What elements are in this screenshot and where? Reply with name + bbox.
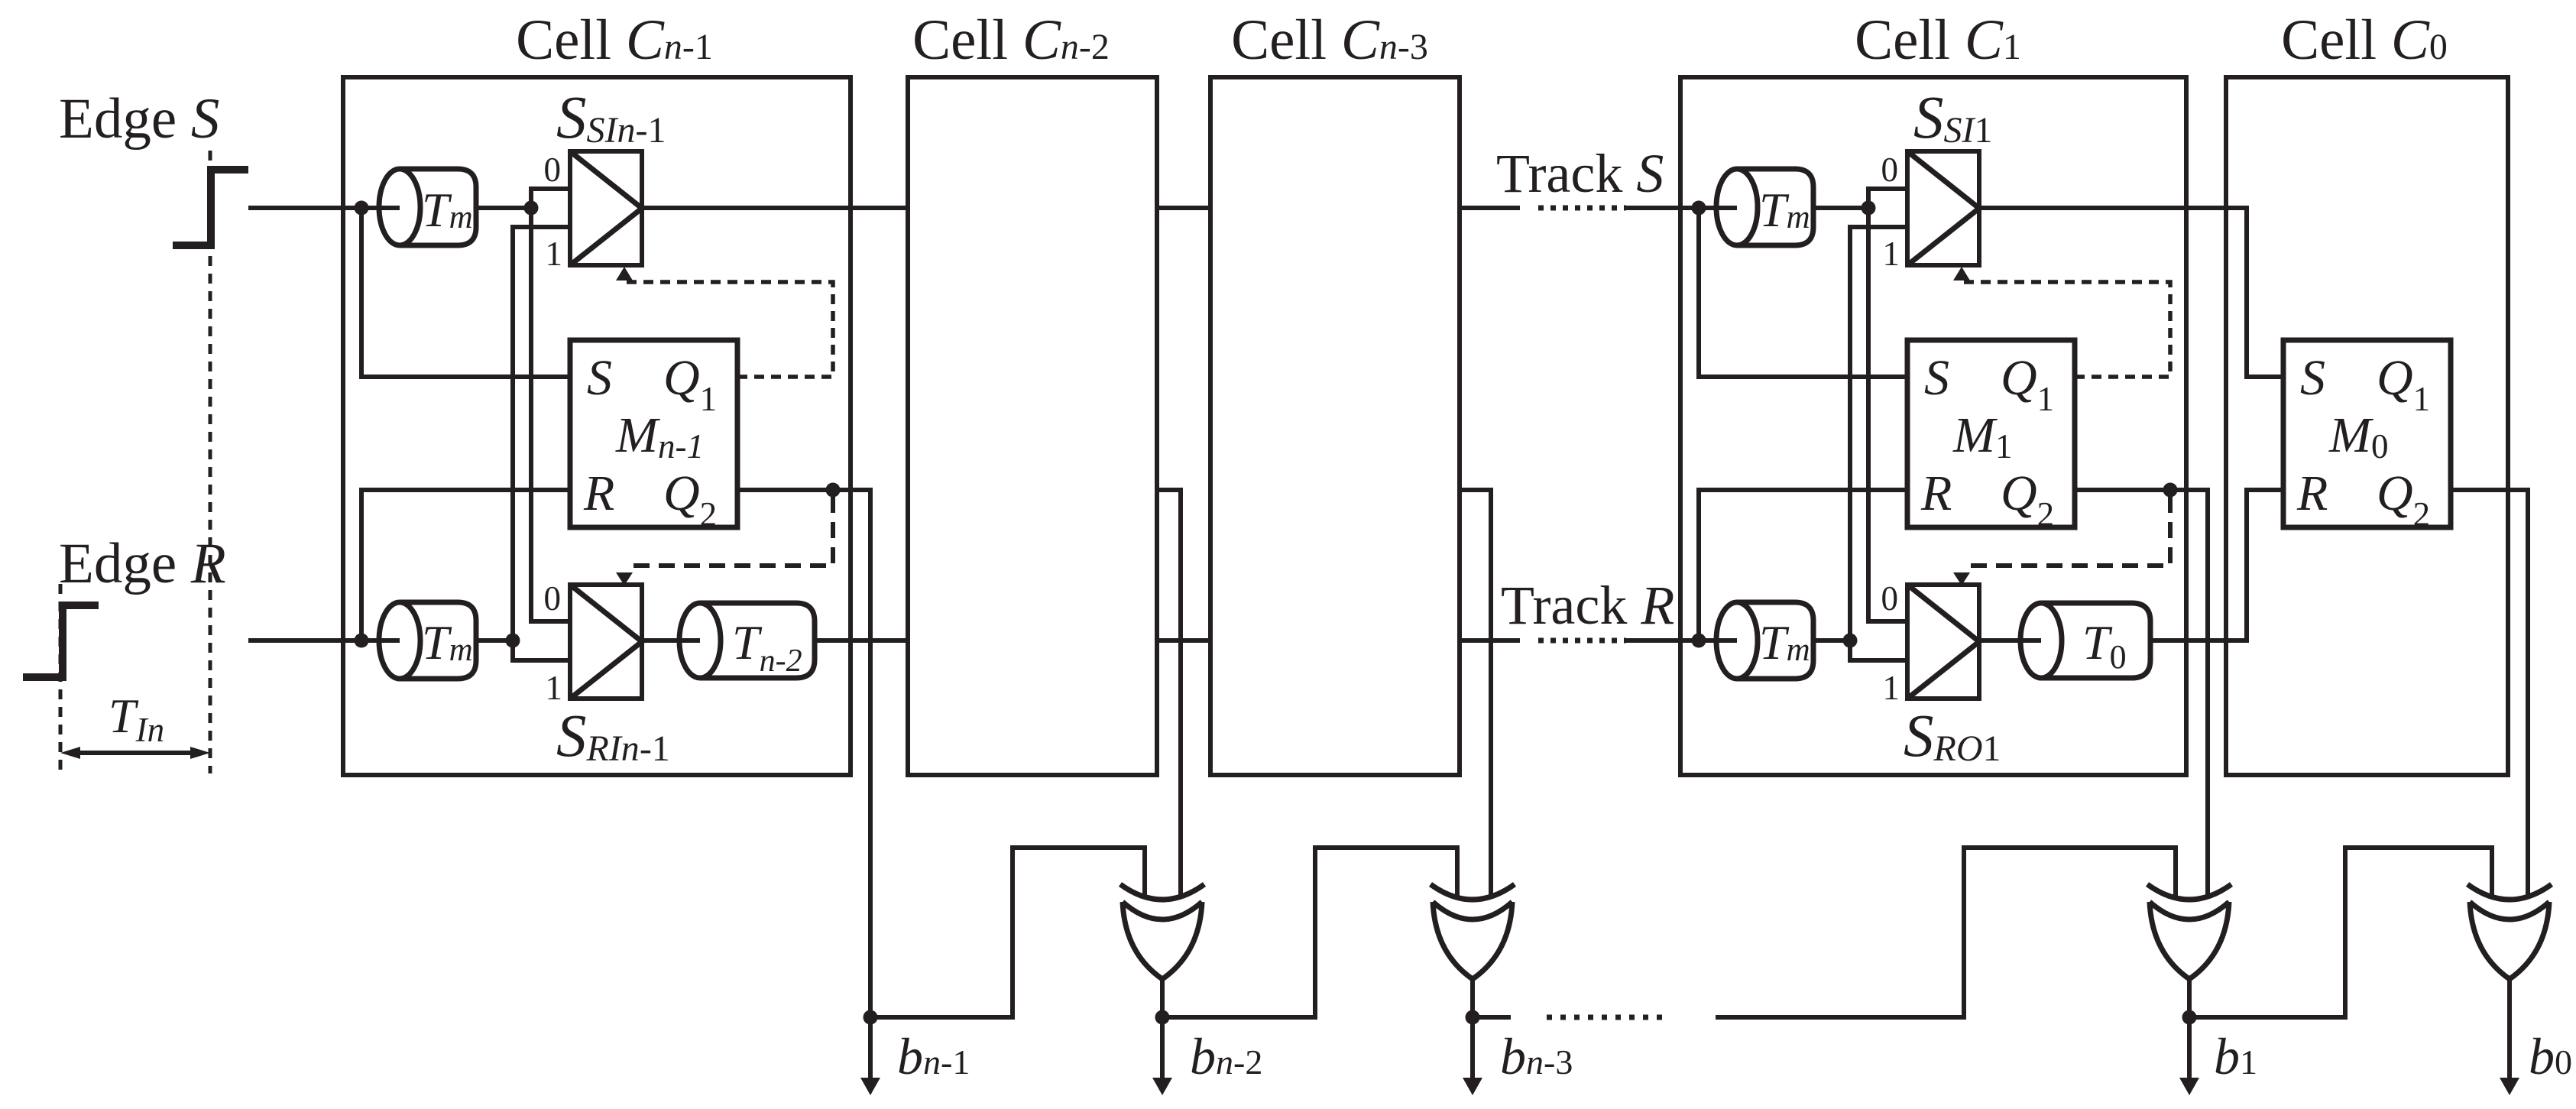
svg-text:1: 1 (1883, 669, 1900, 707)
svg-text:R: R (583, 465, 614, 521)
svg-text:1: 1 (546, 669, 563, 707)
svg-text:0: 0 (544, 579, 562, 618)
svg-text:0: 0 (544, 151, 562, 189)
svg-text:S: S (2300, 350, 2325, 406)
svg-text:Cell C1: Cell C1 (1855, 8, 2021, 72)
svg-text:R: R (1920, 465, 1952, 521)
svg-text:Track S: Track S (1496, 143, 1664, 204)
svg-text:S: S (1924, 350, 1949, 406)
svg-text:1: 1 (1883, 235, 1900, 273)
svg-text:Cell C0: Cell C0 (2281, 8, 2448, 72)
svg-text:0: 0 (1881, 151, 1899, 189)
svg-text:0: 0 (1881, 579, 1899, 618)
svg-text:R: R (2296, 465, 2328, 521)
svg-text:Edge R: Edge R (59, 532, 226, 595)
svg-text:S: S (587, 350, 612, 406)
svg-text:Edge S: Edge S (59, 87, 219, 151)
svg-text:Track R: Track R (1501, 575, 1674, 636)
svg-text:1: 1 (546, 235, 563, 273)
